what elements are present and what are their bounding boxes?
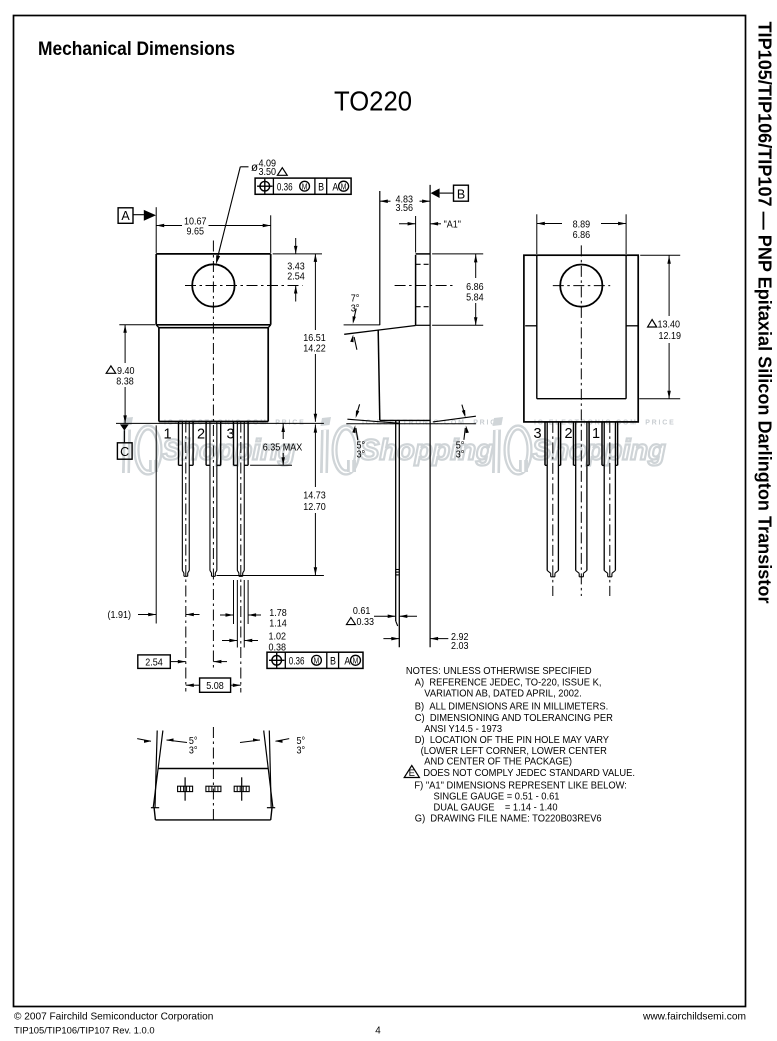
front view mounting hole xyxy=(192,264,234,306)
front view vertical centerline xyxy=(212,241,214,671)
side view tab outline xyxy=(416,254,431,326)
svg-text:12.19: 12.19 xyxy=(659,330,681,342)
svg-text:6.35 MAX: 6.35 MAX xyxy=(263,442,303,454)
svg-text:DOES NOT COMPLY JEDEC STANDARD: DOES NOT COMPLY JEDEC STANDARD VALUE. xyxy=(423,768,635,779)
dim 10.67/9.65 extension lines xyxy=(156,207,271,253)
side view body back edge xyxy=(378,330,380,420)
dim A1 xyxy=(399,219,461,231)
svg-text:B: B xyxy=(330,656,336,668)
svg-text:2: 2 xyxy=(197,426,205,442)
svg-text:TIP105/TIP106/TIP107 — PNP Epi: TIP105/TIP106/TIP107 — PNP Epitaxial Sil… xyxy=(755,22,775,604)
side view body top slant xyxy=(344,326,415,335)
svg-text:3°: 3° xyxy=(297,745,306,757)
bottom view draft lines right xyxy=(264,731,273,808)
bottom view centerline xyxy=(212,727,214,823)
svg-text:3.50: 3.50 xyxy=(259,166,277,178)
svg-text:© 2007 Fairchild Semiconductor: © 2007 Fairchild Semiconductor Corporati… xyxy=(14,1011,213,1022)
side view seating line xyxy=(346,423,476,425)
side view lead xyxy=(396,421,400,648)
svg-text:14.22: 14.22 xyxy=(303,343,325,355)
svg-text:Mechanical Dimensions: Mechanical Dimensions xyxy=(38,39,235,60)
svg-text:8.38: 8.38 xyxy=(116,376,134,388)
notes block xyxy=(404,666,635,825)
svg-text:E: E xyxy=(409,768,415,779)
svg-text:ø: ø xyxy=(251,162,258,174)
side view lead crimp marks xyxy=(396,570,400,575)
dim 14.73/12.70 extension line bottom xyxy=(217,575,324,577)
svg-text:C: C xyxy=(120,445,129,459)
dim 4.83/3.56 xyxy=(380,194,430,214)
dim 8.89/6.86 xyxy=(537,219,626,241)
svg-text:3: 3 xyxy=(226,426,234,442)
svg-text:SINGLE GAUGE = 0.51 - 0.61: SINGLE GAUGE = 0.51 - 0.61 xyxy=(434,791,560,802)
side view front face line xyxy=(429,185,431,647)
front view hole horizontal centerline xyxy=(185,285,303,287)
svg-text:5.08: 5.08 xyxy=(206,680,224,692)
side view bottom slant right xyxy=(433,416,476,422)
bottom view outline xyxy=(154,769,272,820)
angle 7deg/3deg xyxy=(350,293,359,350)
svg-text:2.54: 2.54 xyxy=(287,271,305,283)
svg-text:C) DIMENSIONING AND TOLERANCI: C) DIMENSIONING AND TOLERANCING PER xyxy=(415,713,613,724)
svg-text:(1.91): (1.91) xyxy=(108,610,131,622)
svg-text:G) DRAWING FILE NAME: TO220B0: G) DRAWING FILE NAME: TO220B03REV6 xyxy=(415,813,602,824)
back view leads xyxy=(545,422,618,577)
angle 5deg/3deg side view right xyxy=(456,405,469,461)
dim 13.40/12.19 extension lines xyxy=(639,255,680,399)
dim (1.91) extension line xyxy=(155,425,157,623)
svg-text:VARIATION AB, DATED APRIL, 200: VARIATION AB, DATED APRIL, 2002. xyxy=(424,688,581,699)
svg-text:0.36: 0.36 xyxy=(289,655,305,668)
dim 1.78/1.14 extension lines xyxy=(234,580,249,624)
svg-text:0.36: 0.36 xyxy=(277,181,293,194)
back view tab lines xyxy=(537,255,626,399)
svg-text:A) REFERENCE JEDEC, TO-220, I: A) REFERENCE JEDEC, TO-220, ISSUE K, xyxy=(415,677,602,688)
front view leads xyxy=(179,422,249,577)
front view lead 1 centerline xyxy=(185,422,187,692)
dim 5.08 basic xyxy=(186,678,241,692)
svg-text:B: B xyxy=(457,187,465,201)
front view tab outline xyxy=(156,254,271,325)
watermark 3 xyxy=(492,417,676,473)
svg-text:M: M xyxy=(302,182,308,192)
svg-text:TIP105/TIP106/TIP107 Rev. 1.0.: TIP105/TIP106/TIP107 Rev. 1.0.0 xyxy=(14,1024,155,1035)
svg-text:D) LOCATION OF THE PIN HOLE M: D) LOCATION OF THE PIN HOLE MAY VARY xyxy=(415,735,610,746)
feature control frame top xyxy=(255,178,351,194)
dim 10.67/9.65 xyxy=(156,216,271,238)
svg-text:AND CENTER OF THE PACKAGE): AND CENTER OF THE PACKAGE) xyxy=(424,756,572,767)
svg-text:3°: 3° xyxy=(189,745,198,757)
back view outline xyxy=(524,255,638,422)
datum C symbol xyxy=(117,424,132,459)
svg-text:DUAL GAUGE = 1.14 - 1.40: DUAL GAUGE = 1.14 - 1.40 xyxy=(434,802,558,813)
side view horizontal centerline xyxy=(395,285,453,287)
svg-text:9.65: 9.65 xyxy=(186,226,204,238)
svg-text:2.03: 2.03 xyxy=(451,640,469,652)
svg-text:B: B xyxy=(318,182,324,194)
side view back extension line xyxy=(379,191,381,325)
dim 1.02/0.38 xyxy=(222,631,286,654)
watermark 1 xyxy=(122,417,306,473)
dim 8.89/6.86 extension lines xyxy=(537,214,626,254)
side view body bottom xyxy=(380,419,430,421)
svg-text:0.61: 0.61 xyxy=(353,605,371,617)
dim 3.43/2.54 xyxy=(287,238,305,302)
back view hole horizontal centerline xyxy=(553,285,610,287)
svg-text:2.54: 2.54 xyxy=(145,657,163,669)
svg-text:13.40: 13.40 xyxy=(658,319,680,331)
bottom view lead pads xyxy=(178,786,250,791)
svg-text:4: 4 xyxy=(375,1025,381,1036)
svg-text:F) "A1" DIMENSIONS REPRESENT L: F) "A1" DIMENSIONS REPRESENT LIKE BELOW: xyxy=(414,780,627,791)
watermark 2 xyxy=(320,417,504,473)
svg-text:ANSI Y14.5 - 1973: ANSI Y14.5 - 1973 xyxy=(424,724,502,735)
svg-text:M: M xyxy=(314,656,320,666)
bottom view pad centerline 1 xyxy=(184,777,186,800)
dim 9.40/8.38 extension line xyxy=(119,324,155,326)
svg-text:Shopping: Shopping xyxy=(360,435,494,467)
dim 6.86/5.84 extension lines xyxy=(432,254,483,325)
svg-text:www.fairchildsemi.com: www.fairchildsemi.com xyxy=(642,1011,746,1022)
front view body outline xyxy=(156,325,271,422)
bottom view side ticks xyxy=(151,807,275,809)
dim 16.51/14.22 xyxy=(303,254,325,422)
svg-text:14.73: 14.73 xyxy=(303,490,325,502)
svg-text:NOTES: UNLESS OTHERWISE SPECIF: NOTES: UNLESS OTHERWISE SPECIFIED xyxy=(406,666,592,677)
bottom view angle left xyxy=(137,736,197,757)
back view lead 3 centerline xyxy=(552,422,554,596)
front view lead 3 centerline xyxy=(240,422,242,693)
dim 1.78/1.14 xyxy=(220,608,287,630)
dim 13.40/12.19 xyxy=(648,255,681,399)
svg-text:6.86: 6.86 xyxy=(573,230,591,242)
dim 1.02/0.38 extension lines xyxy=(237,580,244,648)
svg-text:3°: 3° xyxy=(357,449,366,461)
svg-text:1: 1 xyxy=(163,426,171,442)
dim 2.54 basic xyxy=(138,655,227,669)
hole diameter label xyxy=(251,158,287,178)
svg-text:A: A xyxy=(332,182,338,194)
svg-text:M: M xyxy=(341,182,347,192)
datum B symbol xyxy=(431,185,469,201)
angle 5deg/3deg side view left xyxy=(352,404,365,460)
dim 9.40/8.38 xyxy=(106,325,134,424)
hole leader line xyxy=(214,167,248,265)
svg-text:6.86: 6.86 xyxy=(466,281,484,293)
svg-text:3.56: 3.56 xyxy=(396,202,414,214)
dim 0.61/0.33 xyxy=(346,605,417,628)
back view lead 1 centerline xyxy=(609,422,611,596)
svg-text:TO220: TO220 xyxy=(334,86,412,117)
back view notch ticks xyxy=(525,325,638,327)
svg-text:1.14: 1.14 xyxy=(269,618,287,630)
dim (1.91) xyxy=(108,610,200,622)
svg-text:3°: 3° xyxy=(456,449,465,461)
dim 2.92/2.03 xyxy=(383,631,468,652)
svg-text:"A1": "A1" xyxy=(444,219,461,231)
bottom view draft lines left xyxy=(153,731,163,808)
svg-text:0.33: 0.33 xyxy=(357,616,375,628)
svg-text:1: 1 xyxy=(592,426,600,442)
svg-text:12.70: 12.70 xyxy=(303,501,325,513)
dim A1 extension line xyxy=(415,216,417,253)
dim 6.35 MAX extension line xyxy=(250,464,292,466)
svg-text:B) ALL DIMENSIONS ARE IN MILL: B) ALL DIMENSIONS ARE IN MILLIMETERS. xyxy=(415,701,608,712)
bottom view pad centerline 3 xyxy=(241,777,243,800)
bottom view angle right xyxy=(240,736,305,757)
svg-text:5.84: 5.84 xyxy=(466,292,484,304)
side view tab bottom junction xyxy=(416,324,431,326)
feature control frame bottom xyxy=(267,652,363,668)
seating plane line xyxy=(116,422,324,424)
back view vertical centerline xyxy=(580,245,582,596)
side view hidden hole lines xyxy=(416,264,431,306)
dim 6.35 MAX xyxy=(263,423,303,465)
svg-text:2: 2 xyxy=(564,426,572,442)
svg-text:A: A xyxy=(344,656,350,668)
svg-text:3: 3 xyxy=(533,426,541,442)
svg-text:1.02: 1.02 xyxy=(269,631,287,643)
svg-text:M: M xyxy=(353,656,359,666)
dim 6.86/5.84 xyxy=(466,254,484,325)
back view mounting hole xyxy=(560,265,602,307)
svg-text:A: A xyxy=(121,209,130,223)
datum A symbol xyxy=(118,208,156,224)
dim 14.73/12.70 xyxy=(303,424,325,575)
side view body top reference line xyxy=(344,324,380,326)
dim 3.43/2.54 extension line top xyxy=(273,253,322,255)
side view bottom slant left xyxy=(347,419,398,423)
